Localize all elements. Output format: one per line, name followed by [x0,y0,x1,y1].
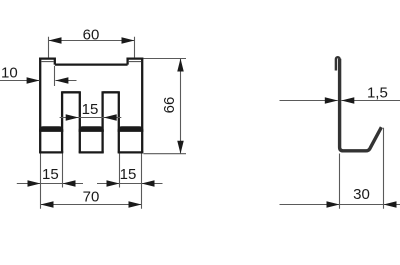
dimension 15 bottom-left: dimension line [17,183,83,185]
dimension 70: left arrow [41,201,54,208]
front view: right outer edge [141,58,143,153]
dimension 15 bottom-left: extension lines [17,154,83,209]
svg-text:15: 15 [120,166,137,183]
svg-text:10: 10 [1,64,18,81]
front view: tab fold lines [41,61,141,63]
dimension 60: left arrow [49,37,62,44]
dimension 30: extension lines [280,128,400,209]
dimension 70: dimension line [41,204,142,206]
dimension 10: right-pointing arrow [27,77,40,84]
front view: hook bend band tooth 1 [39,126,63,132]
dimension 66: top arrow [177,59,184,72]
dimension 70: right arrow [129,201,142,208]
dimension 15 bottom-right: right arrow [142,180,155,187]
svg-text:70: 70 [83,188,100,205]
dimension 30: dimension line [280,204,400,206]
dimension 30: left arrow [327,201,340,208]
dimension 15 bottom-left: right arrow [63,180,76,187]
svg-text:66: 66 [161,97,178,114]
front view: left outer edge [39,58,41,153]
dimension 1,5: left arrow [325,97,338,104]
dimension 15 middle: dimension line [60,117,122,119]
dimension 15 bottom-right: left arrow [107,180,120,187]
dimension 66: bottom arrow [177,141,184,154]
dimension 60: right arrow [122,37,135,44]
dimension 15 middle: left arrow [66,114,79,121]
side view: sheet profile top hook fold [336,57,340,70]
side view: sheet profile main band [340,59,382,151]
svg-text:15: 15 [82,101,99,118]
dimension 10: extension line [0,66,77,86]
svg-text:30: 30 [353,186,370,203]
dimension 60: extension lines [49,37,135,58]
dimension 15 middle: right arrow [104,114,117,121]
dimension 1,5: right arrow [341,97,354,104]
front view: part outline (top tabs and bar) [39,58,143,153]
dimension 66: dimension line [180,59,182,154]
front view: hook bend band tooth 2 [79,126,104,132]
front view: slot 1 [62,91,80,153]
dimension 10: dimension lines [0,80,77,82]
front view: slot 2 [103,91,119,153]
dimension 66: extension lines [144,59,187,154]
svg-text:1,5: 1,5 [367,84,388,101]
dimension 15 bottom-left: left arrow [28,180,41,187]
front view: hook bend band tooth 3 [118,126,144,132]
dimension 60: dimension line [49,40,135,42]
dimension 15 bottom-right: dimension line [97,183,163,185]
svg-text:60: 60 [83,26,100,43]
dimension 1,5: dimension lines [280,100,400,102]
dimension 30: right arrow [384,201,397,208]
svg-text:15: 15 [42,166,59,183]
dimension 10: left-pointing arrow [55,77,68,84]
dimension 15 bottom-right: extension lines [97,154,163,209]
front view: teeth bottom edges [39,151,143,153]
